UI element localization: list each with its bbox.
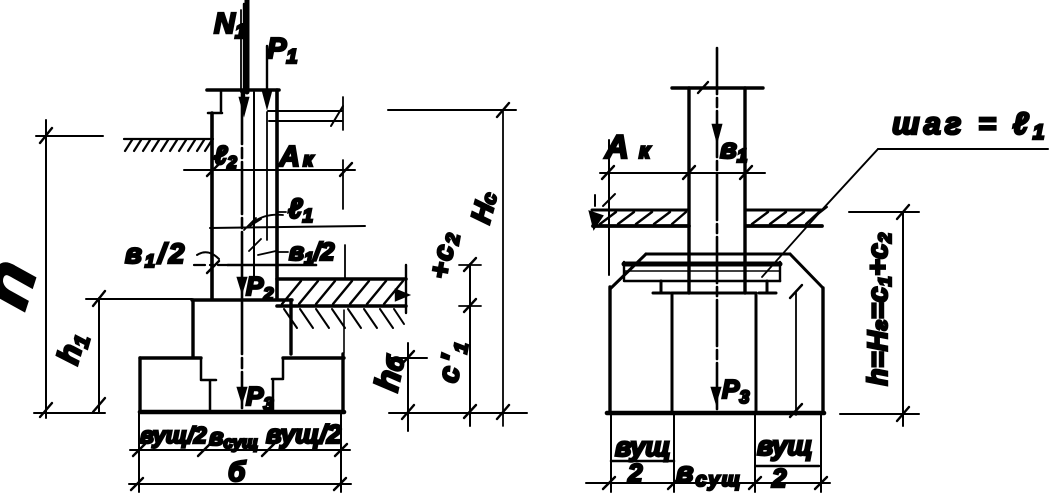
stud right [759, 281, 776, 293]
foundation bottom right figure [607, 411, 824, 416]
dimension Ak line right [600, 166, 765, 179]
anchor bar (plate) [624, 262, 780, 281]
dimension h (left) [34, 120, 105, 418]
soil hatch under slab [284, 309, 404, 328]
extension line x=343 [343, 97, 345, 278]
dimension Hc line [388, 103, 516, 426]
socket joint left [201, 358, 216, 411]
force P2 arrow [238, 278, 246, 291]
svg-text:h: h [0, 250, 53, 317]
node axis: column centerline (left figure) [245, 0, 250, 92]
bottom dimension line 2 (b total) [129, 478, 351, 490]
pier height dimension [790, 285, 802, 417]
bottom dimension line 1 [130, 444, 350, 456]
svg-text:всущ: всущ [676, 457, 742, 491]
bottom extension lines right figure [611, 413, 821, 492]
svg-text:P3: P3 [722, 374, 749, 407]
floor slab right part (hatched) [746, 210, 822, 226]
dimension Ak line [184, 163, 355, 176]
stud left [653, 281, 670, 293]
floor slab right (hatched) [277, 265, 406, 313]
svg-text:вущ/2: вущ/2 [266, 419, 342, 449]
svg-text:с'1: с'1 [432, 335, 473, 386]
svg-text:ℓ1: ℓ1 [288, 193, 313, 227]
force N1 arrow [240, 4, 248, 113]
arrow at slab right end [396, 290, 408, 300]
line under e1 [210, 226, 365, 228]
tick on column edge [207, 261, 219, 273]
column edges right figure [687, 88, 690, 293]
Ak extension line [608, 140, 610, 275]
dash-dot line at P2 level [194, 264, 228, 266]
svg-text:Ак: Ак [278, 141, 316, 173]
svg-text:P3: P3 [246, 381, 273, 414]
svg-text:P1: P1 [267, 33, 297, 68]
svg-text:шаг = ℓ1: шаг = ℓ1 [892, 106, 1048, 144]
dimension hb [389, 343, 527, 431]
load arrow on axis [713, 125, 721, 140]
column left edge [210, 113, 214, 299]
svg-text:Нс: Нс [465, 188, 503, 226]
svg-text:всущ: всущ [209, 424, 258, 452]
force P3 right arrow [712, 388, 720, 401]
svg-text:б: б [228, 456, 246, 487]
pier [672, 293, 756, 413]
svg-text:ℓ2: ℓ2 [214, 140, 237, 172]
svg-text:вущ/2: вущ/2 [140, 422, 207, 448]
dimension C line [459, 258, 481, 426]
leader shag=l1 [762, 149, 1048, 277]
bottom dimension line right figure [586, 477, 830, 489]
arrow at slab left end [590, 212, 602, 228]
force P1 arrow [263, 46, 271, 106]
dimension h1 [86, 291, 192, 413]
svg-text:2: 2 [627, 458, 643, 488]
foundation step 2 [140, 354, 344, 411]
bottom dimension extension lines [139, 412, 341, 492]
floor slab left part (hatched) [592, 195, 689, 226]
column cap line [672, 86, 763, 89]
extension above step2 right edge [343, 310, 345, 353]
trapezoid foundation [610, 254, 823, 413]
svg-text:в1/2: в1/2 [125, 238, 187, 271]
svg-text:+с2: +с2 [423, 228, 465, 282]
dimension h=Hg line [840, 205, 919, 426]
svg-text:вущ: вущ [757, 431, 813, 461]
svg-text:h1: h1 [50, 329, 95, 369]
node axis: column centerline (right figure) [716, 48, 719, 411]
svg-text:h=Нг=с1+с2: h=Нг=с1+с2 [862, 232, 895, 385]
svg-text:в1/2: в1/2 [289, 238, 335, 268]
foundation bottom [140, 410, 344, 415]
svg-text:Ак: Ак [604, 128, 660, 165]
foundation step 1 [192, 300, 292, 357]
column right edge [275, 90, 279, 299]
ground line left with hatching [124, 139, 213, 151]
column cap left corbel [208, 90, 222, 113]
double dimension lines top right of cap [268, 106, 343, 126]
force P3 arrow [238, 388, 246, 401]
svg-text:вущ: вущ [615, 432, 671, 462]
socket joint right [272, 358, 283, 411]
column cap top [207, 88, 279, 92]
svg-text:2: 2 [771, 463, 787, 493]
